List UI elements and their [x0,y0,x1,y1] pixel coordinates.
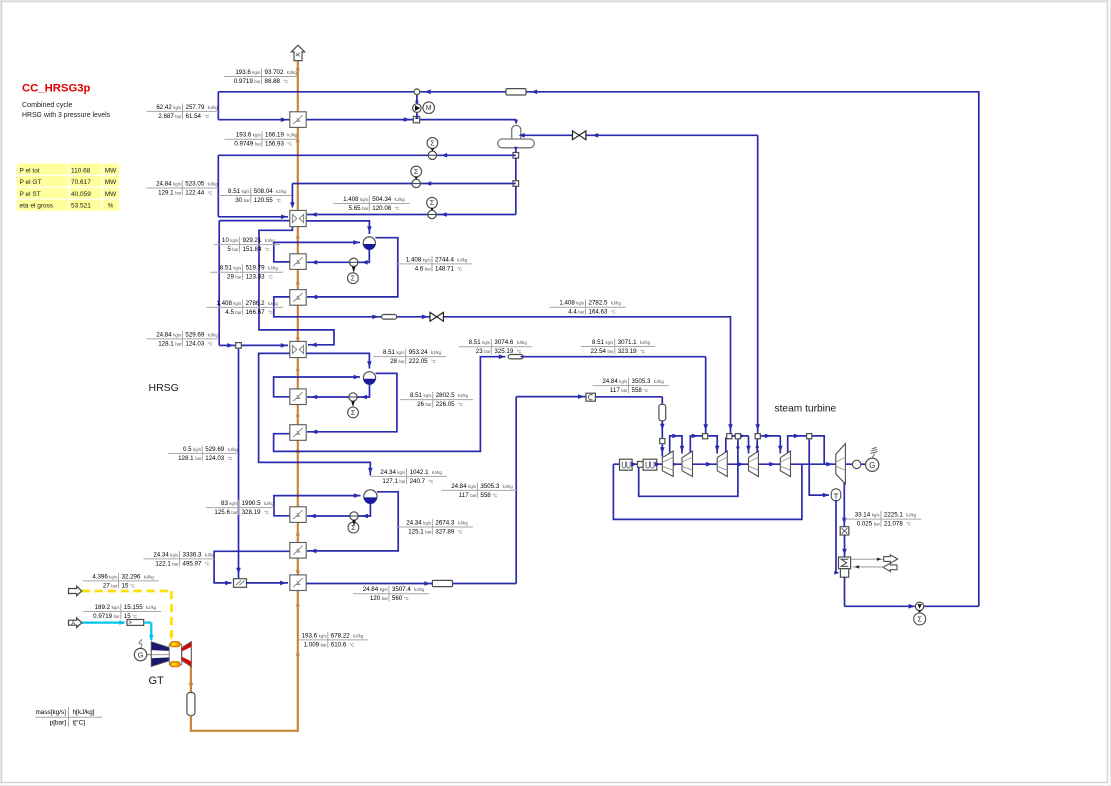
wire IP downcomer b [307,396,349,398]
GT combustor housing [169,644,181,664]
wire feedwater line 3 [436,214,516,216]
svg-text:kg/s: kg/s [619,379,627,384]
arrow fuel [169,634,174,640]
svg-text:steam turbine: steam turbine [775,404,837,415]
svg-text:122.1: 122.1 [155,560,171,567]
arrow into HP circ valve [362,514,368,519]
valve pegging steam valve [573,131,586,140]
controller HP circulation controller [348,522,359,533]
svg-text:kg/s: kg/s [253,133,261,138]
svg-text:bar: bar [425,529,432,534]
node feedwater 2 [513,181,519,187]
svg-text:G: G [138,650,144,659]
svg-text:Σ: Σ [414,169,419,176]
label gas after preheater [225,138,298,140]
label LP steam [207,306,283,308]
arrow into stage 4 [746,446,751,452]
svg-text:G: G [869,461,875,470]
svg-text:24.34: 24.34 [406,519,422,526]
drum HP drum [364,490,377,503]
heat exchanger LP superheater [290,290,306,306]
wire LP eco right outlet to LP drum [306,221,369,234]
wire hotwell outlet [844,577,846,606]
wire stage 5 to 6 jumper [788,436,832,464]
svg-text:120.08: 120.08 [372,205,391,212]
wire to HP control stage [516,396,586,398]
measuring section LP steam [382,315,397,320]
arrow spray water [236,568,241,574]
svg-text:bar: bar [470,493,477,498]
svg-text:kg/s: kg/s [576,301,584,306]
arrow into HP superheater 1 [310,549,316,554]
svg-text:bar: bar [321,642,328,647]
svg-text:4.4: 4.4 [568,309,577,316]
gas flow arrow [296,567,300,573]
results table [17,164,119,211]
arrow riser into extraction node [755,443,759,448]
cooling water outlet arrow symbol [884,555,898,563]
measuring section top header [506,89,526,95]
svg-text:kg/s: kg/s [319,633,327,638]
svg-text:P el GT: P el GT [20,179,42,186]
arrow into condenser [842,549,847,555]
arrow HP feed [227,343,233,348]
svg-text:53.521: 53.521 [71,203,91,210]
node LP heater extraction [807,434,812,439]
svg-text:10: 10 [222,237,229,244]
svg-text:kJ/kg: kJ/kg [458,393,469,398]
svg-text:15: 15 [124,613,131,620]
svg-text:8.51: 8.51 [228,188,241,195]
arrow into condensate pump [909,604,915,609]
wire feedwater line 1 [437,154,516,156]
wire LP steam crossover [274,297,731,433]
arrow into LP eco top [290,202,295,208]
svg-text:°C: °C [265,247,270,252]
svg-text:327.89: 327.89 [435,528,454,535]
wire into stage 4 [748,436,750,454]
turbine stage LP2 [836,444,846,484]
svg-text:t[°C]: t[°C] [73,718,86,726]
drum LP drum [363,237,375,249]
wire feedwater drop [217,155,219,217]
svg-text:bar: bar [235,275,242,280]
svg-text:bar: bar [231,510,238,515]
svg-text:Σ: Σ [430,140,435,147]
svg-text:°C: °C [276,198,281,203]
label GT exhaust gas [299,639,368,641]
node HP feed split [236,343,242,349]
wire drop to preheater [217,92,219,120]
arrow into LP superheater [311,295,317,300]
wire condensate header top [218,91,979,93]
svg-text:1.408: 1.408 [216,300,232,307]
arrow feedwater 1 [441,153,447,158]
svg-text:kJ/kg: kJ/kg [503,484,514,489]
wire stage 4 to 5 jumper [756,439,758,453]
arrow shaft steam flow [706,462,712,467]
wire bleed steam riser [757,135,759,433]
controller link 1 [431,148,435,151]
wire air to compressor [144,621,152,623]
svg-text:kJ/kg: kJ/kg [268,266,279,271]
svg-text:0.025: 0.025 [857,521,873,528]
svg-text:bar: bar [175,341,182,346]
wire fuel drop [170,591,173,638]
svg-text:222.05: 222.05 [409,358,428,365]
arrow deaerator extraction [755,424,760,430]
svg-text:257.79: 257.79 [186,104,205,111]
gas flow arrow [296,279,300,285]
svg-text:33.14: 33.14 [855,512,871,519]
arrow jumper 1 [672,434,678,439]
wire stage 2 to 3 jumper [690,436,717,454]
arrow hot reheat [424,581,430,586]
svg-text:127.1: 127.1 [382,478,398,485]
svg-text:kg/s: kg/s [468,484,476,489]
heat exchanger reheater [290,575,306,591]
svg-text:kg/s: kg/s [233,301,241,306]
svg-text:88.88: 88.88 [265,78,281,85]
wire IP-HP eco left outlet [259,353,371,475]
svg-text:kg/s: kg/s [872,513,880,518]
wire extraction to valve loop [639,439,738,496]
svg-text:3507.4: 3507.4 [392,586,411,593]
wire stage 3 to 4 jumper [725,438,727,453]
svg-text:kJ/kg: kJ/kg [414,587,425,592]
svg-text:5.65: 5.65 [349,205,362,212]
arrow into deaerator [514,120,518,125]
svg-text:27: 27 [103,582,110,589]
HP admission measuring pipe [659,404,666,421]
heat exchanger condensate preheater [290,112,306,128]
svg-text:P el ST: P el ST [20,191,41,198]
LP controller link [352,267,356,273]
svg-text:Σ: Σ [351,410,356,417]
wire IP-HP eco right outlet to IP drum [306,353,369,368]
wire into stage 5 [779,436,781,454]
svg-text:°C: °C [643,388,648,393]
wire hot reheat line [307,583,517,585]
svg-text:26: 26 [417,401,424,408]
wire HP feed drop [218,221,220,346]
svg-text:Σ: Σ [430,200,435,207]
node recirculation tee [413,116,419,122]
svg-text:kg/s: kg/s [170,552,178,557]
arrow into stage 1 [660,447,665,453]
arrow into HP evaporator [310,514,316,519]
HP steam admission box [586,393,595,401]
svg-text:kg/s: kg/s [112,605,120,610]
svg-text:Combined cycle: Combined cycle [22,101,73,109]
arrow jumper 4 [765,434,771,439]
arrow into IP evaporator [311,395,317,400]
wire LP riser [274,242,360,262]
fuel inlet symbol [69,586,82,596]
svg-text:kg/s: kg/s [360,197,368,202]
arrow shaft steam flow [769,462,775,467]
svg-text:kJ/kg: kJ/kg [431,350,442,355]
wire HP riser [274,496,361,516]
exhaust duct bottom run [190,730,299,732]
wire LP downcomer b [307,261,350,263]
svg-text:°C: °C [640,349,645,354]
arrow HP admission [660,424,665,430]
wire into preheater [218,119,289,121]
svg-text:kJ/kg: kJ/kg [457,257,468,262]
expansion joint [840,527,849,535]
svg-text:kJ/kg: kJ/kg [640,340,651,345]
svg-text:kg/s: kg/s [233,266,241,271]
coupling [852,460,860,468]
svg-text:°C: °C [268,275,273,280]
svg-text:bar: bar [426,402,433,407]
label air [83,611,161,613]
svg-text:bar: bar [114,614,121,619]
deaerator head [512,126,521,142]
label HP eco outlet [371,475,447,477]
arrow jumper 5 [794,434,800,439]
arrow between valve blocks [631,462,637,467]
label hot reheat [353,593,429,595]
svg-text:bar: bar [382,596,389,601]
label IP superheated steam [459,346,532,348]
gas flow arrow [296,334,300,340]
wire air line [82,621,125,623]
valve HP circulation valve [350,512,358,520]
svg-text:kJ/kg: kJ/kg [432,470,443,475]
svg-text:2744.4: 2744.4 [435,256,454,263]
controller link 2 [414,177,418,180]
svg-text:166.19: 166.19 [265,132,284,139]
label HP steam at turbine [593,385,669,387]
svg-text:kJ/kg: kJ/kg [458,520,469,525]
svg-text:23: 23 [476,348,483,355]
svg-text:21.078: 21.078 [884,521,903,528]
svg-text:151.84: 151.84 [243,246,262,253]
svg-text:M: M [426,105,432,112]
svg-text:24.34: 24.34 [153,551,169,558]
svg-text:189.2: 189.2 [95,604,111,611]
arrow shaft steam flow [672,462,678,467]
silencer [187,693,195,716]
turbine stage IP1 [717,451,727,477]
svg-text:kJ/kg: kJ/kg [228,447,239,452]
svg-text:°C: °C [205,561,210,566]
generator GT [134,648,146,660]
arrow into HP drum [368,468,373,474]
svg-text:°C: °C [458,402,463,407]
label HP drum steam [396,526,472,528]
svg-text:2225.1: 2225.1 [884,512,903,519]
svg-text:bar: bar [235,310,242,315]
arrow into LP circ valve [362,260,368,265]
svg-text:128.1: 128.1 [178,455,194,462]
wire feedwater line 2 [420,183,515,185]
svg-text:117: 117 [459,492,469,499]
wire HP downcomer [358,503,370,516]
label spray water [168,452,238,454]
svg-text:kg/s: kg/s [252,70,260,75]
arrow into LP eco right [311,212,317,217]
svg-text:2802.5: 2802.5 [436,392,455,399]
svg-text:bar: bar [175,190,182,195]
svg-text:61.54: 61.54 [186,113,202,120]
svg-text:24.34: 24.34 [380,469,396,476]
svg-text:kg/s: kg/s [380,587,388,592]
HRSG gas riser [297,61,299,731]
deaerator vessel [498,139,535,148]
wire to HP feed node [219,344,235,346]
wire admission row 3 [732,435,749,437]
svg-text:bar: bar [621,388,628,393]
svg-text:323.19: 323.19 [618,348,637,355]
node HP turbine inlet [660,439,665,444]
svg-text:610.6: 610.6 [331,641,347,648]
svg-text:4.5: 4.5 [225,309,234,316]
svg-text:kg/s: kg/s [482,340,490,345]
svg-text:bar: bar [399,479,406,484]
svg-text:24.84: 24.84 [363,586,379,593]
drain trap [831,489,840,501]
node mixing point header [414,89,420,95]
svg-text:kJ/kg: kJ/kg [287,70,298,75]
svg-text:kJ/kg: kJ/kg [276,189,287,194]
svg-text:929.21: 929.21 [243,237,262,244]
wire downcomer 3 [515,186,517,214]
svg-text:678.22: 678.22 [331,632,350,639]
controller IP circulation controller [348,407,359,418]
svg-text:226.05: 226.05 [436,401,455,408]
svg-text:kJ/kg: kJ/kg [208,332,219,337]
arrow riser into LP drum [353,240,359,245]
arrow LP steam 1 [372,315,378,320]
wire spray water drop [238,349,240,579]
svg-text:8.51: 8.51 [592,339,605,346]
wire pegging steam to deaerator [522,134,573,136]
svg-text:1.408: 1.408 [559,300,575,307]
svg-text:°C: °C [457,266,462,271]
svg-text:kg/s: kg/s [173,181,181,186]
valve LP admission valve [430,312,443,321]
arrow into LP turbine [826,462,832,467]
svg-text:1.408: 1.408 [343,196,359,203]
heat exchanger HP evaporator [290,507,306,523]
svg-text:bar: bar [362,206,369,211]
svg-text:HRSG: HRSG [149,382,179,394]
arrow into IP-HP eco [281,343,287,348]
arrow preheater outlet [404,117,410,122]
wire stage 1 to 2 jumper [670,436,682,454]
svg-text:°C: °C [611,310,616,315]
wire drain trap outlet [835,500,837,573]
svg-text:124.03: 124.03 [185,340,204,347]
svg-text:bar: bar [484,349,491,354]
svg-text:°C: °C [906,522,911,527]
svg-text:93.702: 93.702 [265,69,284,76]
wire to condenser [844,535,846,557]
arrow into stage 3 [715,446,720,452]
heat exchanger IP-HP economizer [290,341,306,357]
svg-text:kJ/kg: kJ/kg [264,501,275,506]
svg-text:2.687: 2.687 [158,113,174,120]
svg-text:mass[kg/s]: mass[kg/s] [35,709,66,716]
svg-text:°C: °C [132,614,137,619]
svg-text:kJ/kg: kJ/kg [265,238,276,243]
svg-text:117: 117 [610,387,620,394]
svg-text:8.51: 8.51 [383,349,396,356]
svg-text:123.33: 123.33 [246,274,265,281]
gas flow arrow [296,233,300,239]
label HP feedwater [146,187,218,189]
gas turbine exhaust duct [190,666,192,693]
svg-text:kJ/kg: kJ/kg [208,105,219,110]
wire LP heater extraction drop [809,439,829,495]
turbine stage IP2 [749,451,759,477]
arrow into reheater [280,581,286,586]
svg-text:°C: °C [204,114,209,119]
wire into IP-HP economizer [242,344,288,346]
svg-text:bar: bar [172,561,179,566]
svg-text:8.51: 8.51 [220,265,233,272]
svg-text:0.9719: 0.9719 [93,613,112,620]
svg-text:kJ/kg: kJ/kg [353,633,364,638]
arrow extraction up [736,443,740,448]
arrow riser into IP drum [354,375,360,380]
svg-text:3074.6: 3074.6 [494,339,513,346]
svg-text:bar: bar [232,247,239,252]
arrow feedwater 3 [441,212,447,217]
svg-text:24.84: 24.84 [451,483,467,490]
arrow drain into hotwell [834,571,839,575]
turbine stop valve block 2 [643,459,657,470]
svg-text:kJ/kg: kJ/kg [611,301,622,306]
GT combustor bottom [171,662,180,667]
svg-text:8.51: 8.51 [410,392,423,399]
svg-text:°C: °C [228,456,233,461]
pump motor link [918,611,922,613]
wire condensate pump line [845,605,979,607]
generator GT ground symbol [139,639,142,648]
arrow LP admission [728,424,733,430]
label LP recirculation [214,244,280,246]
label LP feedwater [333,203,409,205]
GT turbine [182,642,192,667]
arrow into IP-HP eco right [311,343,317,348]
svg-text:193.6: 193.6 [235,69,251,76]
svg-text:bar: bar [608,349,615,354]
exhaust duct down [190,716,192,732]
condenser [839,557,851,569]
controller LP circulation controller [348,273,359,284]
svg-text:A: A [71,621,75,627]
GT compressor [151,642,169,667]
arrow into LP drum [367,226,372,232]
wire hot reheat riser [515,397,517,584]
svg-text:495.97: 495.97 [183,560,202,567]
arrow jumper 2 [692,434,698,439]
arrow IP steam [499,354,505,359]
svg-text:2674.3: 2674.3 [435,519,454,526]
svg-text:°C: °C [264,510,269,515]
svg-text:kg/s: kg/s [173,105,181,110]
svg-text:0.5: 0.5 [183,446,192,453]
generator ST [866,458,879,471]
GT shaft [147,654,152,656]
svg-text:P el tot: P el tot [20,167,40,174]
label HP evaporator flow [206,507,274,509]
svg-text:°C: °C [492,493,497,498]
